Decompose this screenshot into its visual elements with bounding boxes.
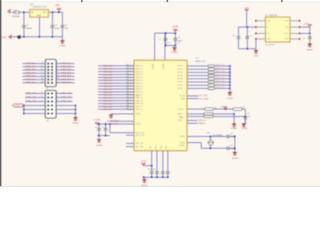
svg-text:+5V: +5V bbox=[245, 7, 249, 9]
svg-text:PA04_AD: PA04_AD bbox=[103, 76, 113, 79]
svg-text:PA15_AD: PA15_AD bbox=[103, 108, 113, 111]
svg-text:RN?B_IO1: RN?B_IO1 bbox=[216, 68, 225, 70]
svg-text:4: 4 bbox=[57, 65, 58, 67]
svg-text:AGND: AGND bbox=[141, 184, 148, 187]
svg-text:BOOTRG: BOOTRG bbox=[266, 45, 275, 47]
svg-text:PA09_AD: PA09_AD bbox=[103, 91, 113, 94]
svg-text:PA01_IO: PA01_IO bbox=[136, 67, 144, 70]
svg-text:9: 9 bbox=[41, 75, 42, 77]
svg-text:DATA_A60: DATA_A60 bbox=[25, 81, 36, 84]
svg-text:GPIO0: GPIO0 bbox=[177, 66, 183, 68]
svg-text:PA05_AD: PA05_AD bbox=[103, 79, 113, 82]
svg-text:12: 12 bbox=[57, 78, 59, 80]
svg-text:TDIO: TDIO bbox=[178, 120, 183, 122]
svg-text:C1CMP: C1CMP bbox=[112, 120, 120, 122]
svg-text:TRIM: TRIM bbox=[284, 39, 289, 41]
svg-text:CTRL_D00: CTRL_D00 bbox=[61, 93, 72, 95]
svg-text:6: 6 bbox=[57, 100, 58, 102]
svg-text:PA03_AD: PA03_AD bbox=[103, 73, 113, 76]
svg-text:PA04_IO: PA04_IO bbox=[136, 76, 144, 79]
svg-text:C1OUT: C1OUT bbox=[112, 124, 120, 126]
svg-text:DATA_A20: DATA_A20 bbox=[25, 68, 36, 71]
svg-text:DVDD: DVDD bbox=[153, 63, 155, 69]
svg-text:PWON: PWON bbox=[178, 109, 184, 111]
svg-text:DGND: DGND bbox=[171, 52, 178, 54]
svg-text:2: 2 bbox=[57, 62, 58, 64]
svg-text:CTRL_C20: CTRL_C20 bbox=[26, 101, 37, 103]
svg-text:PA07_AD: PA07_AD bbox=[103, 85, 113, 88]
svg-text:PA06_AD: PA06_AD bbox=[103, 82, 113, 85]
svg-text:ADC_INP: ADC_INP bbox=[136, 142, 145, 145]
svg-text:7: 7 bbox=[41, 72, 42, 74]
svg-text:+3.3V: +3.3V bbox=[172, 27, 179, 29]
svg-text:VOUT: VOUT bbox=[284, 33, 289, 35]
svg-text:+5V: +5V bbox=[55, 5, 60, 7]
svg-text:PA10_AD: PA10_AD bbox=[103, 94, 113, 97]
svg-text:DATA_B20: DATA_B20 bbox=[61, 68, 72, 71]
svg-text:DATA_B50: DATA_B50 bbox=[61, 78, 72, 81]
svg-text:100uF: 100uF bbox=[26, 28, 32, 30]
svg-text:DGND: DGND bbox=[231, 128, 238, 130]
svg-text:AGND: AGND bbox=[72, 121, 79, 124]
svg-text:RN?D_IO3: RN?D_IO3 bbox=[216, 74, 225, 76]
svg-text:GPIO7: GPIO7 bbox=[177, 88, 183, 90]
svg-text:DATA_B60: DATA_B60 bbox=[61, 81, 72, 84]
svg-text:3: 3 bbox=[41, 65, 42, 67]
svg-text:GND: GND bbox=[37, 15, 42, 17]
svg-text:1: 1 bbox=[41, 92, 42, 94]
svg-text:GND: GND bbox=[2, 37, 7, 39]
svg-text:GPIO4: GPIO4 bbox=[177, 79, 183, 81]
svg-text:DATA_B10: DATA_B10 bbox=[61, 65, 72, 68]
svg-text:PA06_IO: PA06_IO bbox=[136, 82, 144, 85]
svg-text:DGND: DGND bbox=[163, 63, 165, 69]
svg-text:AGND: AGND bbox=[96, 144, 103, 147]
svg-text:RN?C_IO2: RN?C_IO2 bbox=[216, 71, 225, 73]
svg-text:PA13_IO: PA13_IO bbox=[136, 102, 144, 105]
svg-text:7: 7 bbox=[163, 57, 164, 59]
svg-text:IN+: IN+ bbox=[267, 33, 270, 35]
svg-text:4: 4 bbox=[57, 96, 58, 98]
svg-text:GPIO1: GPIO1 bbox=[177, 69, 183, 71]
svg-text:SWCLK: SWCLK bbox=[198, 120, 206, 122]
svg-text:5: 5 bbox=[41, 69, 42, 71]
svg-text:PA14_AD: PA14_AD bbox=[103, 105, 113, 108]
svg-text:SCM: SCM bbox=[180, 117, 184, 119]
svg-text:24.576MHz: 24.576MHz bbox=[213, 135, 223, 137]
svg-text:BUSY: BUSY bbox=[178, 114, 184, 116]
svg-text:5: 5 bbox=[41, 100, 42, 102]
svg-text:13: 13 bbox=[41, 81, 43, 83]
svg-text:800mA: 800mA bbox=[12, 15, 19, 18]
svg-text:RN?A_IO0: RN?A_IO0 bbox=[216, 64, 225, 67]
svg-text:SC1A: SC1A bbox=[180, 95, 186, 98]
svg-text:I2C_SCL: I2C_SCL bbox=[199, 95, 209, 97]
svg-text:C?: C? bbox=[159, 39, 161, 41]
svg-text:3: 3 bbox=[41, 96, 42, 98]
svg-text:+3.3V: +3.3V bbox=[141, 161, 147, 163]
svg-text:PA02_AD: PA02_AD bbox=[103, 71, 113, 74]
svg-text:RN?G_IO6: RN?G_IO6 bbox=[216, 84, 225, 86]
svg-text:+3.3V: +3.3V bbox=[303, 24, 309, 26]
svg-text:C?: C? bbox=[177, 38, 179, 40]
svg-text:CTRL_D10: CTRL_D10 bbox=[61, 97, 72, 99]
svg-text:+3.3VA: +3.3VA bbox=[93, 119, 101, 122]
svg-text:I2C_SDA: I2C_SDA bbox=[199, 97, 209, 100]
svg-text:ARRCON: ARRCON bbox=[196, 60, 206, 63]
svg-text:DATA_A10: DATA_A10 bbox=[25, 65, 36, 68]
svg-text:AGND: AGND bbox=[307, 48, 314, 51]
svg-text:DATA_A30: DATA_A30 bbox=[25, 71, 36, 74]
svg-text:PA15_IO: PA15_IO bbox=[136, 108, 144, 111]
svg-text:RN?F_IO5: RN?F_IO5 bbox=[216, 81, 225, 83]
svg-text:C?: C? bbox=[167, 43, 169, 45]
svg-text:PA00_IO: PA00_IO bbox=[136, 65, 144, 68]
svg-text:MUX_XCN: MUX_XCN bbox=[136, 135, 146, 137]
svg-text:DATA_B00: DATA_B00 bbox=[61, 62, 72, 65]
svg-text:14: 14 bbox=[57, 81, 59, 83]
svg-text:C?: C? bbox=[177, 43, 179, 45]
svg-text:LM2940CT/5.0: LM2940CT/5.0 bbox=[32, 7, 47, 9]
svg-text:C?: C? bbox=[247, 113, 249, 115]
svg-text:C?: C? bbox=[232, 36, 234, 38]
svg-text:PA03_IO: PA03_IO bbox=[136, 73, 144, 76]
svg-text:C?: C? bbox=[230, 133, 232, 135]
svg-text:PA12_IO: PA12_IO bbox=[136, 99, 144, 102]
svg-text:DGND: DGND bbox=[242, 128, 249, 130]
svg-text:PA05_IO: PA05_IO bbox=[136, 79, 144, 82]
svg-text:2: 2 bbox=[57, 92, 58, 94]
svg-text:RN?E_IO4: RN?E_IO4 bbox=[216, 78, 225, 80]
svg-text:10: 10 bbox=[57, 75, 59, 77]
svg-text:C? 0.1uF: C? 0.1uF bbox=[148, 169, 156, 171]
svg-text:C?: C? bbox=[95, 127, 97, 129]
svg-text:C?: C? bbox=[102, 127, 104, 129]
svg-text:PA09_IO: PA09_IO bbox=[136, 91, 144, 94]
svg-text:PA07_IO: PA07_IO bbox=[136, 85, 144, 88]
svg-text:8: 8 bbox=[57, 72, 58, 74]
svg-text:PA14_IO: PA14_IO bbox=[136, 105, 144, 108]
svg-text:GPIO2: GPIO2 bbox=[177, 72, 183, 74]
svg-text:PA00_AD: PA00_AD bbox=[103, 65, 113, 68]
svg-text:ADC_INN: ADC_INN bbox=[136, 145, 145, 148]
svg-text:6: 6 bbox=[57, 69, 58, 71]
svg-text:CTRL: CTRL bbox=[15, 106, 20, 108]
svg-text:DATA_A00: DATA_A00 bbox=[25, 62, 36, 65]
svg-text:DATA_A50: DATA_A50 bbox=[25, 78, 36, 81]
svg-text:PA08_IO: PA08_IO bbox=[136, 88, 144, 91]
svg-text:CTRL_C00: CTRL_C00 bbox=[26, 93, 37, 95]
svg-text:PA02_IO: PA02_IO bbox=[136, 70, 144, 73]
svg-text:SWDIO: SWDIO bbox=[198, 123, 206, 125]
svg-text:XTAL1: XTAL1 bbox=[179, 135, 185, 138]
svg-text:CTRL_D20: CTRL_D20 bbox=[61, 101, 72, 103]
svg-text:PA01_AD: PA01_AD bbox=[103, 68, 113, 71]
svg-text:VREF-: VREF- bbox=[136, 114, 142, 116]
svg-text:10uF: 10uF bbox=[55, 28, 60, 30]
svg-text:DATA_B30: DATA_B30 bbox=[61, 71, 72, 74]
svg-text:PA12_AD: PA12_AD bbox=[103, 100, 113, 103]
svg-text:VDDA: VDDA bbox=[136, 123, 142, 126]
svg-text:C?: C? bbox=[250, 36, 252, 38]
svg-text:11: 11 bbox=[41, 78, 43, 80]
svg-text:GND: GND bbox=[254, 55, 259, 57]
svg-text:U? OPA2340: U? OPA2340 bbox=[265, 14, 279, 17]
svg-text:PA11_AD: PA11_AD bbox=[103, 97, 113, 100]
svg-text:C?: C? bbox=[230, 145, 232, 147]
svg-text:PA08_AD: PA08_AD bbox=[103, 88, 113, 91]
svg-text:GPIO5: GPIO5 bbox=[177, 82, 183, 84]
svg-text:DATA_A40: DATA_A40 bbox=[25, 75, 36, 78]
svg-text:GPIO6: GPIO6 bbox=[177, 85, 183, 87]
svg-text:GPIO3: GPIO3 bbox=[177, 75, 183, 77]
svg-text:RN?H_IO7: RN?H_IO7 bbox=[216, 87, 225, 89]
svg-text:1: 1 bbox=[41, 62, 42, 64]
svg-text:SCM2: SCM2 bbox=[180, 145, 185, 147]
svg-text:PA13_AD: PA13_AD bbox=[103, 102, 113, 105]
svg-text:C?: C? bbox=[303, 38, 305, 40]
svg-text:SDA1: SDA1 bbox=[181, 97, 186, 100]
svg-text:SCL1: SCL1 bbox=[136, 96, 141, 98]
svg-text:AGND: AGND bbox=[232, 157, 239, 160]
svg-text:DATA_B40: DATA_B40 bbox=[61, 75, 72, 78]
svg-text:CTRL_C10: CTRL_C10 bbox=[26, 97, 37, 99]
svg-text:DGND: DGND bbox=[227, 98, 234, 100]
svg-text:PGND: PGND bbox=[59, 46, 66, 48]
